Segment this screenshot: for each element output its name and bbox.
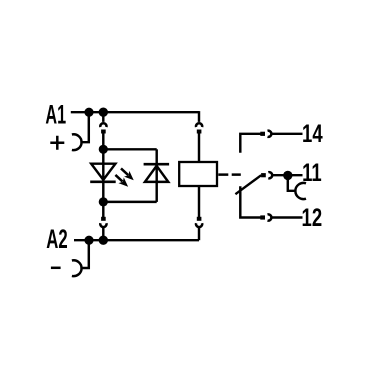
polarity plus sign	[50, 136, 64, 150]
svg-text:11: 11	[302, 158, 322, 186]
junction node dot bottom of LED/diode box	[99, 197, 108, 206]
wire coil bottom lead	[198, 185, 200, 217]
plug-in connector pin (male, coil branch bottom)	[197, 217, 202, 221]
polarity minus sign	[51, 267, 61, 270]
plug-in connector stub from A1 dot	[102, 112, 104, 122]
contact moving blade (common 11)	[235, 175, 261, 194]
plug-in connector pin (male, on 12 wire)	[260, 215, 265, 219]
plug-in connector pin (male, coil branch)	[197, 130, 202, 134]
plug-in connector socket (female, on 11 wire, opens left)	[268, 172, 272, 178]
svg-text:12: 12	[302, 203, 323, 231]
junction node dot on A1 wire (to + clamp)	[84, 108, 93, 117]
contact fixed stub 12 (normally closed)	[240, 186, 260, 217]
plug-in connector pin (male, LED branch side)	[101, 130, 106, 134]
relay coil K1	[179, 162, 217, 186]
plug-in connector pin (male, LED branch bottom)	[101, 217, 106, 221]
contact fixed stub 14 (normally open)	[240, 134, 260, 153]
plug-in connector pin (male, on 11 wire)	[261, 173, 266, 177]
plug-in connector pin (male, on 14 wire)	[260, 132, 265, 136]
wire 11 horizontal	[272, 174, 303, 176]
wire from socket down to A2 wire	[102, 227, 104, 241]
junction node dot on A2 wire (to - clamp)	[84, 236, 93, 245]
mechanical actuator dashed link	[218, 173, 241, 175]
svg-text:A1: A1	[45, 99, 66, 129]
plug-in connector socket (female, A2 side under coil, opens up)	[196, 223, 202, 227]
plug-in connector socket (female, on 14 wire, opens left)	[268, 131, 272, 137]
freewheeling diode D2 cathode bar	[144, 163, 170, 166]
wire coil branch top vertical	[198, 111, 200, 122]
LED D1 triangle (pointing down)	[91, 164, 115, 180]
wire LED cathode lead	[102, 182, 104, 202]
clamp terminal symbol plus (CAGE CLAMP arc)	[72, 134, 82, 150]
svg-text:A2: A2	[46, 224, 67, 254]
LED light emission arrow 1	[118, 166, 136, 184]
svg-text:14: 14	[302, 119, 323, 147]
plug-in connector socket (female, A2 side, opens up)	[100, 223, 106, 227]
LED light emission arrow 2	[113, 172, 131, 190]
wire 11 down to clamp	[288, 175, 296, 190]
freewheeling diode D2 triangle (pointing up)	[145, 166, 168, 182]
LED D1 cathode bar	[90, 180, 116, 183]
plug-in connector socket (female, coil branch top, opens down)	[196, 123, 202, 127]
wire diode anode lead	[103, 201, 156, 203]
wire from + clamp up to A1 wire	[80, 112, 88, 142]
junction node dot on A1 wire (to LED branch)	[99, 108, 108, 117]
wire A2 bottom horizontal	[74, 239, 199, 241]
junction node dot on A2 wire (LED branch)	[99, 236, 108, 245]
plug-in connector socket (female, on 12 wire, opens left)	[268, 214, 272, 220]
junction node dot on 11 wire	[283, 171, 292, 180]
wire LED anode lead	[102, 149, 104, 182]
wire right side of diode box	[155, 149, 157, 202]
plug-in connector socket (female, A1 side, opens down)	[100, 123, 106, 127]
wire LED branch down to plug connector	[102, 202, 104, 217]
wire from socket down to A2 wire	[198, 227, 200, 241]
clamp terminal symbol 11 (CAGE CLAMP arc, opens right)	[295, 183, 306, 199]
junction node dot top of LED/diode box	[99, 145, 108, 154]
wire A1 top horizontal	[71, 111, 199, 113]
wire from - clamp up to A2 wire	[80, 240, 88, 268]
clamp terminal symbol minus (CAGE CLAMP arc)	[72, 260, 82, 276]
wire top of diode box	[103, 148, 156, 150]
